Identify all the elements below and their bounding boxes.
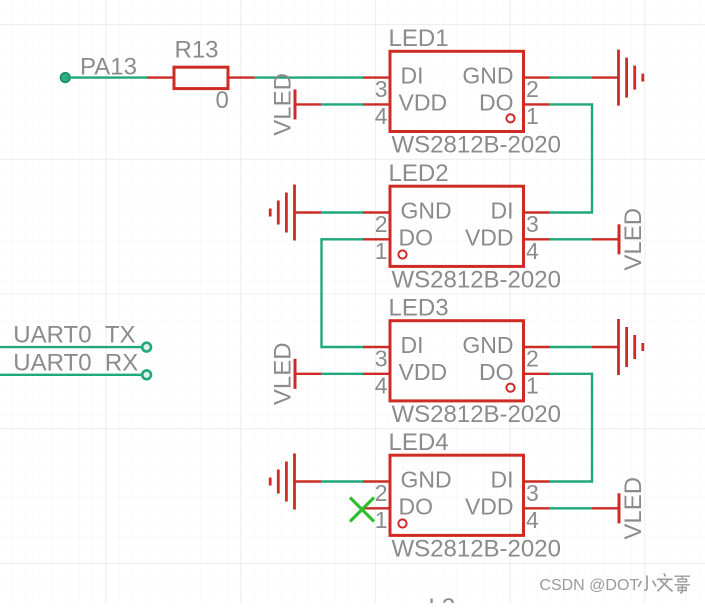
LED4 pin number 4 (526, 507, 539, 533)
svg-text:1: 1 (526, 372, 539, 398)
wire R13 left lead (red) (147, 76, 174, 78)
LED1 pin 2 (GND) lead (524, 76, 550, 78)
wire LED3 GND to ground (green) (550, 346, 593, 348)
svg-text:4: 4 (526, 238, 539, 264)
LED1 pin 4 (VDD) lead (363, 103, 390, 105)
svg-text:WS2812B-2020: WS2812B-2020 (392, 267, 561, 294)
LED1 pin number 3 (375, 76, 388, 102)
LED3 pin number 1 (526, 372, 539, 398)
resistor R13 (174, 67, 228, 88)
LED2 pin name DI (491, 198, 514, 224)
value 0 (216, 87, 229, 114)
designator L2 (clipped at bottom) (429, 594, 456, 608)
wire LED2 DO to LED3 DI (green) (322, 239, 364, 347)
svg-text:2: 2 (526, 76, 539, 102)
svg-text:L2: L2 (429, 594, 456, 603)
ground at LED3 pin 2 (592, 319, 643, 375)
svg-text:VLED: VLED (270, 73, 297, 136)
ground at LED4 pin 2 (270, 454, 321, 510)
power VLED at LED1 VDD (270, 73, 322, 136)
svg-text:VLED: VLED (270, 342, 297, 405)
LED1 pin number 2 (526, 76, 539, 102)
wire R13 right lead (red) (228, 76, 255, 78)
svg-text:LED2: LED2 (389, 160, 449, 187)
IC LED2 WS2812B-2020 body (390, 186, 524, 266)
svg-text:3: 3 (375, 76, 388, 102)
LED3 pin 2 (GND) lead (524, 346, 550, 348)
designator LED2 (389, 160, 449, 187)
no-connect flag on LED4 DO (350, 498, 374, 522)
LED2 pin number 2 (375, 211, 388, 237)
LED3 pin 3 (DI) lead (363, 346, 390, 348)
svg-text:DO: DO (399, 224, 434, 250)
LED1 pin number 4 (375, 103, 388, 129)
LED4 pin name DI (491, 467, 514, 493)
svg-text:DI: DI (491, 198, 514, 224)
LED1 pin 3 (DI) lead (363, 76, 390, 78)
LED4 pin 4 (VDD) lead (524, 507, 550, 509)
svg-text:1: 1 (526, 103, 539, 129)
svg-text:LED1: LED1 (389, 25, 449, 52)
svg-text:DI: DI (401, 332, 424, 358)
svg-text:0: 0 (216, 87, 229, 114)
LED4 pin number 1 (375, 507, 388, 533)
LED4 pin 1 (DO) lead (363, 507, 390, 509)
LED2 pin 4 (VDD) lead (524, 238, 550, 240)
wire UART0_RX (green) (0, 374, 147, 376)
LED1 pin name VDD (399, 89, 448, 115)
wire UART0_TX (green) (0, 346, 147, 348)
LED4 pin name VDD (465, 493, 514, 519)
part number WS2812B-2020 of LED2 (392, 267, 561, 294)
wire LED2 VDD to VLED (green) (550, 238, 593, 240)
LED1 pin number 1 (526, 103, 539, 129)
svg-text:3: 3 (526, 480, 539, 506)
svg-text:DO: DO (479, 359, 514, 385)
svg-text:2: 2 (526, 346, 539, 372)
svg-text:2: 2 (375, 211, 388, 237)
wire ground to LED2 GND (green) (321, 211, 363, 213)
svg-text:1: 1 (375, 238, 388, 264)
ground at LED1 pin 2 (592, 50, 643, 106)
node UART0_TX port (142, 343, 151, 352)
designator LED3 (389, 295, 449, 322)
svg-text:CSDN @DOT: CSDN @DOT (539, 577, 639, 594)
LED2 pin number 1 (375, 238, 388, 264)
LED1 DO pin dot (506, 114, 514, 122)
svg-text:2: 2 (375, 480, 388, 506)
LED3 pin name DO (479, 359, 514, 385)
designator R13 (175, 37, 219, 64)
wire LED1 GND to ground (green) (550, 76, 593, 78)
LED2 pin 1 (DO) lead (363, 238, 390, 240)
LED3 pin name VDD (399, 359, 448, 385)
LED4 pin number 2 (375, 480, 388, 506)
part number WS2812B-2020 of LED3 (392, 401, 561, 428)
LED3 pin number 2 (526, 346, 539, 372)
LED2 pin name DO (399, 224, 434, 250)
svg-text:DO: DO (399, 493, 434, 519)
svg-text:VLED: VLED (620, 477, 647, 540)
svg-text:UART0_TX: UART0_TX (13, 322, 135, 349)
net label UART0_RX (13, 350, 138, 377)
LED3 pin 4 (VDD) lead (363, 373, 390, 375)
svg-text:4: 4 (375, 372, 388, 398)
LED2 pin number 3 (526, 211, 539, 237)
wire LED4 VDD to VLED (green) (550, 507, 593, 509)
LED1 pin name GND (462, 63, 513, 89)
svg-text:DO: DO (479, 89, 514, 115)
svg-text:VDD: VDD (465, 224, 514, 250)
svg-text:UART0_RX: UART0_RX (13, 350, 138, 377)
wire LED1 DO to LED2 DI (green) (550, 104, 593, 212)
svg-text:WS2812B-2020: WS2812B-2020 (392, 401, 561, 428)
svg-text:DI: DI (401, 63, 424, 89)
LED4 pin name GND (401, 467, 452, 493)
part number WS2812B-2020 of LED1 (392, 132, 561, 159)
LED4 pin 2 (GND) lead (363, 480, 390, 482)
svg-text:4: 4 (375, 103, 388, 129)
wire ground to LED4 GND (green) (321, 480, 363, 482)
svg-text:3: 3 (375, 346, 388, 372)
svg-text:LED3: LED3 (389, 295, 449, 322)
power VLED at LED4 VDD (592, 477, 647, 540)
LED2 pin number 4 (526, 238, 539, 264)
LED2 pin 3 (DI) lead (524, 211, 550, 213)
LED2 pin name GND (401, 198, 452, 224)
svg-text:R13: R13 (175, 37, 219, 64)
IC LED4 WS2812B-2020 body (390, 455, 524, 535)
wire PA13 to R13 (green) (65, 76, 147, 78)
LED1 pin name DI (401, 63, 424, 89)
wire VLED to LED1 VDD (green) (321, 103, 363, 105)
LED4 pin 3 (DI) lead (524, 480, 550, 482)
svg-text:VDD: VDD (399, 359, 448, 385)
power VLED at LED3 VDD (270, 342, 322, 405)
wire LED3 DO to LED4 DI (green) (550, 374, 593, 482)
svg-text:GND: GND (401, 198, 452, 224)
LED1 pin 1 (DO) lead (524, 103, 550, 105)
svg-text:GND: GND (401, 467, 452, 493)
svg-text:VDD: VDD (399, 89, 448, 115)
svg-text:DI: DI (491, 467, 514, 493)
LED3 pin 1 (DO) lead (524, 373, 550, 375)
IC LED1 WS2812B-2020 body (390, 51, 524, 131)
wire VLED to LED3 VDD (green) (321, 373, 363, 375)
part number WS2812B-2020 of LED4 (392, 536, 561, 563)
node UART0_RX port (142, 370, 151, 379)
designator LED4 (389, 429, 449, 456)
LED3 pin name GND (462, 332, 513, 358)
svg-text:1: 1 (375, 507, 388, 533)
LED3 pin name DI (401, 332, 424, 358)
LED3 pin number 3 (375, 346, 388, 372)
svg-text:WS2812B-2020: WS2812B-2020 (392, 536, 561, 563)
net label UART0_TX (13, 322, 135, 349)
wire R13 to LED1 DI (green) (255, 76, 364, 78)
node PA13 port (61, 73, 70, 82)
LED2 pin name VDD (465, 224, 514, 250)
svg-text:VDD: VDD (465, 493, 514, 519)
svg-text:GND: GND (462, 332, 513, 358)
IC LED3 WS2812B-2020 body (390, 321, 524, 401)
power VLED at LED2 VDD (592, 208, 647, 271)
svg-text:VLED: VLED (620, 208, 647, 271)
LED4 DO pin dot (398, 519, 406, 527)
designator LED1 (389, 25, 449, 52)
svg-text:LED4: LED4 (389, 429, 449, 456)
LED4 pin name DO (399, 493, 434, 519)
LED3 pin number 4 (375, 372, 388, 398)
svg-text:3: 3 (526, 211, 539, 237)
watermark CSDN @DOT + CJK glyphs (539, 574, 690, 595)
LED4 pin number 3 (526, 480, 539, 506)
LED2 DO pin dot (398, 250, 406, 258)
svg-text:4: 4 (526, 507, 539, 533)
LED2 pin 2 (GND) lead (363, 211, 390, 213)
LED1 pin name DO (479, 89, 514, 115)
ground at LED2 pin 2 (270, 185, 321, 241)
LED3 DO pin dot (506, 384, 514, 392)
svg-text:WS2812B-2020: WS2812B-2020 (392, 132, 561, 159)
net label PA13 (80, 54, 137, 81)
svg-text:GND: GND (462, 63, 513, 89)
